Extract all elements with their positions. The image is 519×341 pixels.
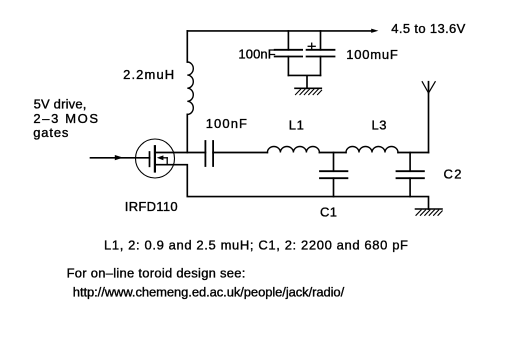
wire cap to L1	[213, 152, 267, 154]
svg-text:C2: C2	[444, 166, 462, 181]
svg-text:gates: gates	[33, 125, 69, 140]
inductor L3	[346, 147, 398, 153]
wire L3 to antenna	[398, 152, 429, 154]
wire source down and bottom rail	[155, 165, 429, 209]
svg-text:http://www.chemeng.ed.ac.uk/pe: http://www.chemeng.ed.ac.uk/people/jack/…	[73, 285, 345, 300]
svg-text:100nF: 100nF	[238, 47, 275, 62]
wire cap join and ground stem	[288, 75, 320, 88]
wire inductor bottom to drain junction	[186, 114, 188, 152]
ground bottom right	[416, 209, 443, 215]
wire drain line	[156, 152, 206, 154]
antenna	[422, 82, 435, 153]
capacitor C1	[320, 153, 347, 197]
svg-text:L1, 2: 0.9 and 2.5 muH; C1, 2:: L1, 2: 0.9 and 2.5 muH; C1, 2: 2200 and …	[104, 237, 408, 252]
wire L1 to L3	[319, 152, 346, 154]
svg-text:IRFD110: IRFD110	[125, 199, 178, 214]
svg-text:5V drive,: 5V drive,	[34, 96, 87, 111]
inductor 2.2muH	[187, 62, 193, 114]
svg-text:L3: L3	[372, 118, 387, 133]
capacitor 100muF electrolytic branch	[307, 31, 335, 76]
svg-text:2–3 MOS: 2–3 MOS	[33, 111, 98, 126]
capacitor C2	[397, 153, 424, 197]
ground top	[295, 88, 322, 94]
svg-text:2.2muH: 2.2muH	[123, 67, 174, 82]
svg-text:L1: L1	[289, 118, 304, 133]
wire gate input	[91, 157, 150, 159]
arrow input	[115, 155, 123, 160]
svg-text:C1: C1	[320, 205, 337, 220]
wire top supply rail	[187, 30, 371, 32]
arrow supply	[371, 29, 378, 33]
capacitor 100nF series plates	[204, 141, 206, 166]
svg-text:For on–line toroid design see:: For on–line toroid design see:	[67, 265, 246, 280]
svg-text:4.5 to 13.6V: 4.5 to 13.6V	[391, 21, 465, 36]
wire left vertical from rail to inductor	[186, 31, 188, 62]
svg-text:100nF: 100nF	[206, 116, 247, 131]
inductor L1	[267, 147, 319, 153]
transistor Q1 IRFD110	[136, 139, 175, 178]
svg-text:100muF: 100muF	[346, 47, 398, 62]
capacitor 100nF bypass branch	[275, 31, 302, 76]
